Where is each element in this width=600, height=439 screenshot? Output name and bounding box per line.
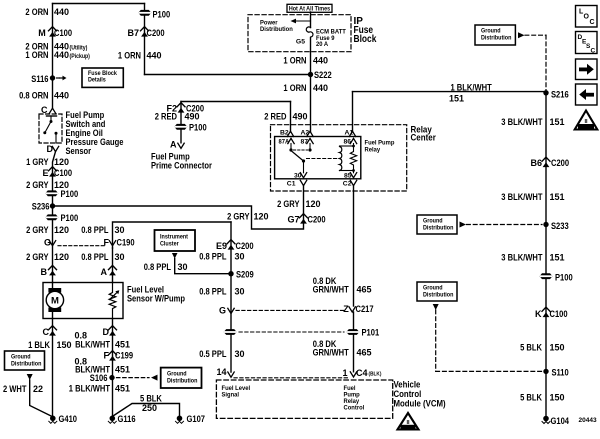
splice S116	[50, 75, 55, 80]
svg-text:(Pickup): (Pickup)	[70, 54, 90, 60]
svg-text:C200: C200	[308, 215, 326, 225]
svg-text:2 WHT: 2 WHT	[3, 384, 27, 394]
svg-text:D: D	[47, 144, 54, 154]
wire: 0.8 PPL horizontal from F C190 branch	[113, 222, 232, 248]
fuse ECM BATT Fuse 9 20A	[306, 27, 313, 37]
svg-text:1 ORN: 1 ORN	[283, 56, 306, 66]
svg-text:Ground: Ground	[423, 218, 443, 225]
svg-text:C: C	[43, 327, 50, 337]
svg-text:C1: C1	[287, 181, 296, 188]
grommet P100 (right)	[540, 273, 553, 279]
relay resistor	[350, 146, 356, 171]
svg-text:GRN/WHT: GRN/WHT	[313, 285, 350, 295]
switch blade	[45, 122, 51, 133]
svg-text:Fuel Pump: Fuel Pump	[365, 140, 395, 147]
svg-text:30: 30	[235, 287, 245, 297]
svg-text:M: M	[51, 296, 59, 307]
svg-text:GRN/WHT: GRN/WHT	[313, 348, 350, 358]
connector C200 pin G7	[300, 214, 308, 224]
svg-text:S209: S209	[236, 270, 254, 280]
svg-text:465: 465	[357, 348, 372, 358]
svg-text:Center: Center	[411, 133, 437, 144]
arrow right of top GD box	[518, 32, 525, 38]
svg-text:Ground: Ground	[423, 285, 443, 292]
connector C100 pin E	[49, 167, 57, 177]
svg-text:30: 30	[235, 349, 245, 359]
svg-text:0.5 PPL: 0.5 PPL	[199, 349, 227, 359]
grommet P100 (top)	[138, 10, 151, 16]
svg-text:151: 151	[550, 192, 565, 202]
svg-text:S116: S116	[31, 74, 48, 84]
svg-text:440: 440	[54, 50, 69, 60]
connector C200 pin B7	[141, 27, 149, 37]
svg-text:C4: C4	[356, 368, 368, 378]
connector C200 pin F2	[177, 103, 185, 113]
wire: A1 branch vertical	[352, 92, 354, 132]
svg-text:P100: P100	[153, 10, 171, 20]
svg-text:451: 451	[115, 384, 130, 394]
svg-text:3 BLK/WHT: 3 BLK/WHT	[501, 117, 543, 127]
svg-text:2 RED: 2 RED	[264, 112, 287, 122]
splice S222	[308, 72, 313, 77]
svg-text:3 BLK/WHT: 3 BLK/WHT	[501, 192, 543, 202]
switch contact plate	[47, 115, 57, 117]
wire: B2 branch vertical 2 RED 490	[290, 102, 292, 132]
svg-text:0.8 PPL: 0.8 PPL	[81, 252, 109, 262]
splice S209	[228, 271, 233, 276]
svg-text:E: E	[42, 168, 48, 178]
svg-text:P101: P101	[362, 328, 380, 338]
box Hot At All Times	[287, 4, 332, 12]
svg-text:1 BLK/WHT: 1 BLK/WHT	[451, 83, 493, 93]
grommet P100 on F2 branch	[174, 124, 187, 130]
arrow below bottom GD box	[433, 304, 439, 310]
svg-text:440: 440	[313, 83, 328, 93]
svg-text:2 RED: 2 RED	[155, 112, 178, 122]
instrument cluster output arrow	[172, 253, 178, 259]
motor M (fuel pump)	[52, 283, 54, 291]
wire: second vertical ORN 440 (P100/B7)	[144, 4, 146, 75]
svg-text:2 GRY: 2 GRY	[26, 252, 48, 262]
dashed box Relay Center	[271, 125, 407, 191]
svg-text:C200: C200	[236, 241, 254, 251]
svg-text:Vehicle: Vehicle	[394, 380, 421, 390]
svg-text:Control: Control	[394, 389, 422, 399]
box Fuel Level Sensor W/Pump	[43, 283, 123, 319]
svg-text:Distribution: Distribution	[260, 26, 293, 33]
wire: sensor D down to G116	[112, 319, 114, 417]
svg-text:451: 451	[115, 340, 130, 350]
svg-text:Instrument: Instrument	[160, 234, 189, 241]
svg-text:S233: S233	[551, 221, 569, 231]
svg-text:14: 14	[216, 367, 226, 377]
svg-text:2 GRY: 2 GRY	[26, 225, 48, 235]
svg-text:5 BLK: 5 BLK	[140, 394, 162, 404]
svg-text:0.8 PPL: 0.8 PPL	[199, 287, 227, 297]
box Fuse Block Details	[82, 68, 123, 87]
svg-text:1 ORN: 1 ORN	[283, 83, 306, 93]
svg-text:G7: G7	[287, 215, 299, 225]
svg-text:30: 30	[178, 262, 188, 272]
box Ground Distribution (S106)	[161, 368, 202, 388]
svg-text:Sensor W/Pump: Sensor W/Pump	[127, 294, 185, 304]
svg-text:G5: G5	[296, 39, 305, 46]
splice S236	[50, 203, 55, 208]
wire: C2 down (0.8 DK GRN/WHT 465)	[353, 186, 355, 306]
wire: top horizontal ORN 440	[53, 3, 145, 5]
wire: below Z to pin 1	[353, 312, 355, 372]
svg-text:87A: 87A	[279, 139, 290, 146]
svg-text:2 ORN: 2 ORN	[25, 7, 48, 17]
OBD II triangle (top right)	[575, 111, 598, 130]
dashed leader to S110	[435, 310, 437, 371]
box Ground Distribution (left)	[5, 351, 45, 370]
connector C200 pin E9	[227, 240, 235, 250]
icon box DESC	[576, 32, 598, 54]
svg-text:20443: 20443	[579, 417, 597, 424]
ground G107	[176, 416, 184, 424]
connector C190 tie line	[58, 245, 106, 247]
box Ground Distribution (top right)	[475, 25, 515, 45]
wire: horizontal 2 RED 490 to F2	[181, 101, 291, 103]
svg-text:Module (VCM): Module (VCM)	[394, 399, 446, 409]
svg-text:C200: C200	[551, 158, 569, 168]
ground G104	[542, 416, 550, 424]
svg-text:F: F	[104, 351, 110, 361]
svg-text:465: 465	[357, 285, 372, 295]
svg-text:C217: C217	[356, 304, 374, 314]
svg-text:440: 440	[147, 51, 162, 61]
connector C217 tie dashes	[236, 309, 346, 311]
svg-text:1 BLK: 1 BLK	[28, 340, 50, 350]
relay blade and common 30	[292, 151, 304, 161]
terminal A into sensor	[109, 265, 117, 275]
svg-text:0.8 PPL: 0.8 PPL	[199, 252, 227, 262]
arrow to power distribution	[294, 20, 311, 22]
svg-text:150: 150	[550, 343, 565, 353]
svg-text:K: K	[535, 309, 542, 319]
svg-text:S106: S106	[90, 373, 108, 383]
svg-text:Block: Block	[354, 34, 377, 45]
svg-text:OBD II: OBD II	[581, 125, 590, 129]
OBD II triangle (VCM)	[398, 413, 419, 430]
svg-text:C100: C100	[54, 168, 72, 178]
svg-text:151: 151	[550, 117, 565, 127]
svg-text:C100: C100	[54, 28, 72, 38]
svg-text:5 BLK: 5 BLK	[520, 343, 542, 353]
svg-text:C: C	[590, 19, 595, 26]
svg-text:150: 150	[57, 340, 72, 350]
svg-text:120: 120	[306, 199, 321, 209]
svg-text:250: 250	[142, 403, 157, 413]
svg-text:F: F	[104, 238, 110, 248]
grommet P100 (upper left)	[45, 190, 58, 196]
svg-text:2 GRY: 2 GRY	[227, 212, 249, 222]
grommet P100 (lower left)	[45, 214, 58, 220]
dashed box Vehicle Control Module	[216, 380, 392, 418]
svg-text:Distribution: Distribution	[423, 292, 454, 299]
svg-text:OBD II: OBD II	[403, 425, 412, 429]
svg-text:C199: C199	[115, 351, 133, 361]
svg-text:30: 30	[115, 252, 125, 262]
connector tie dashes at VCM pins	[234, 377, 350, 379]
wire: left vertical 1 GRY / 2 GRY run	[53, 152, 56, 283]
svg-text:Ground: Ground	[11, 354, 31, 361]
svg-text:120: 120	[54, 225, 69, 235]
svg-text:0.8 PPL: 0.8 PPL	[81, 225, 109, 235]
svg-text:P100: P100	[61, 213, 79, 223]
arrow right of mid GD box	[460, 222, 467, 228]
svg-text:0.8 PPL: 0.8 PPL	[144, 262, 172, 272]
svg-text:C190: C190	[117, 238, 135, 248]
svg-text:22: 22	[33, 384, 43, 394]
svg-text:C100: C100	[550, 309, 568, 319]
fuel level rheostat	[109, 283, 116, 319]
svg-text:Cluster: Cluster	[160, 241, 179, 248]
svg-text:Distribution: Distribution	[423, 225, 454, 232]
grommet P101	[346, 329, 359, 335]
connector C200 pin B6	[542, 157, 550, 167]
svg-text:P100: P100	[555, 273, 573, 283]
connector C100 pin M	[49, 27, 57, 37]
svg-text:G104: G104	[551, 416, 570, 426]
svg-text:Details: Details	[88, 77, 106, 84]
svg-text:120: 120	[54, 157, 69, 167]
wire: sensor C down to G410	[52, 319, 54, 417]
dashed leader S116 to Fuse Block Details	[57, 77, 60, 79]
svg-text:G116: G116	[118, 414, 136, 424]
svg-text:Sensor: Sensor	[66, 146, 92, 156]
svg-text:Signal: Signal	[222, 392, 240, 399]
splice S233	[543, 222, 548, 227]
svg-text:(BLK): (BLK)	[369, 372, 382, 378]
svg-text:S110: S110	[552, 368, 569, 378]
svg-text:Z: Z	[343, 304, 349, 314]
box Ground Distribution (mid right)	[417, 215, 457, 234]
wire: cluster tap to S209	[175, 259, 231, 274]
svg-text:B7: B7	[127, 28, 139, 38]
svg-text:120: 120	[54, 252, 69, 262]
svg-text:S222: S222	[314, 70, 332, 80]
svg-text:Distribution: Distribution	[167, 378, 198, 385]
relay contact tie dashes	[294, 149, 308, 151]
svg-text:B6: B6	[530, 158, 542, 168]
wire: E9 vertical 0.8 PPL	[230, 222, 232, 372]
splice S106	[109, 375, 114, 380]
relay actuation dashes	[307, 158, 337, 160]
wire from hot box to fuse	[310, 12, 312, 28]
svg-text:A: A	[101, 267, 108, 277]
terminal D below sensor	[109, 326, 117, 336]
icon box left arrow	[576, 84, 598, 105]
terminal B into sensor	[49, 265, 57, 275]
svg-text:S216: S216	[551, 90, 569, 100]
svg-text:490: 490	[293, 112, 308, 122]
splice S110	[543, 369, 548, 374]
svg-text:86: 86	[344, 139, 352, 146]
svg-text:440: 440	[313, 56, 328, 66]
connector C199 pin F	[109, 351, 117, 361]
svg-text:Distribution: Distribution	[11, 361, 42, 368]
svg-text:E9: E9	[216, 241, 227, 251]
grommet on signal wire	[224, 329, 237, 335]
relay coil	[340, 147, 342, 171]
svg-text:G107: G107	[187, 414, 206, 424]
terminal C below sensor	[49, 326, 57, 336]
dashed leader S106 to Ground Distribution	[117, 377, 150, 379]
wire: horizontal to S222	[145, 74, 311, 76]
box Instrument Cluster	[155, 230, 196, 251]
svg-text:P100: P100	[61, 189, 79, 199]
svg-text:Relay: Relay	[365, 147, 381, 154]
svg-text:Ground: Ground	[167, 371, 187, 378]
svg-text:B: B	[41, 267, 48, 277]
svg-text:Prime Connector: Prime Connector	[151, 161, 212, 171]
svg-text:2 GRY: 2 GRY	[26, 180, 48, 190]
box Ground Distribution (bottom right)	[417, 282, 457, 301]
icon box right arrow	[576, 59, 598, 80]
svg-text:151: 151	[550, 253, 565, 263]
svg-text:0.8 ORN: 0.8 ORN	[19, 91, 48, 101]
svg-text:150: 150	[550, 393, 565, 403]
icon box LOC	[576, 6, 598, 28]
svg-text:5 BLK: 5 BLK	[520, 393, 542, 403]
svg-text:440: 440	[54, 91, 69, 101]
relay box Fuel Pump Relay	[275, 137, 361, 179]
ground G410	[49, 416, 57, 424]
wire: right main ground vertical	[545, 92, 547, 416]
svg-text:1: 1	[342, 368, 347, 378]
grommet tie dashes P101	[239, 331, 344, 333]
wire: C190 F down to sensor A	[112, 248, 114, 283]
svg-text:D: D	[103, 327, 110, 337]
dashed leader to S216	[525, 34, 546, 36]
svg-text:Ground: Ground	[481, 28, 501, 35]
svg-text:2 GRY: 2 GRY	[277, 199, 299, 209]
splice S216	[543, 90, 548, 95]
svg-text:3 BLK/WHT: 3 BLK/WHT	[501, 253, 543, 263]
fuel pump switch dashed box	[39, 114, 62, 143]
svg-text:1 BLK/WHT: 1 BLK/WHT	[69, 384, 111, 394]
svg-text:Hot At All Times: Hot At All Times	[289, 5, 331, 12]
svg-text:C: C	[591, 48, 596, 55]
wire: left main vertical (2 ORN 440) upper run	[52, 4, 54, 109]
svg-text:1 ORN: 1 ORN	[25, 50, 48, 60]
wire: horizontal 1 BLK/WHT 151 to S216	[353, 91, 547, 93]
dashed leader to S233	[467, 224, 543, 226]
svg-text:C200: C200	[147, 28, 165, 38]
svg-text:Distribution: Distribution	[481, 35, 512, 42]
svg-text:30: 30	[235, 252, 245, 262]
switch pivot dot	[50, 120, 53, 123]
svg-text:120: 120	[254, 212, 269, 222]
svg-text:1 GRY: 1 GRY	[26, 157, 48, 167]
svg-text:S236: S236	[32, 202, 50, 212]
wire: F2 branch vertical	[180, 102, 182, 143]
svg-text:P100: P100	[189, 123, 207, 133]
svg-text:30: 30	[115, 225, 125, 235]
connector C100 pin K	[542, 307, 550, 317]
ground G116	[108, 416, 116, 424]
dashed box IP Fuse Block	[248, 15, 351, 52]
wire: C1 down through G7 C200 and jog to S236	[53, 186, 304, 229]
arrow below left GD box	[27, 374, 33, 380]
svg-text:490: 490	[185, 112, 200, 122]
svg-text:G: G	[219, 306, 226, 316]
svg-text:440: 440	[54, 7, 69, 17]
wire: 5 BLK 250 G116 to G107	[113, 404, 180, 417]
svg-text:1 ORN: 1 ORN	[118, 51, 141, 61]
svg-text:G410: G410	[59, 414, 78, 424]
svg-text:(Utility): (Utility)	[70, 46, 88, 52]
wire: 2 WHT 22 to G410	[30, 380, 52, 417]
wire: fuse down to relay A2	[310, 38, 312, 132]
svg-text:451: 451	[115, 365, 130, 375]
svg-text:BLK/WHT: BLK/WHT	[75, 340, 110, 350]
svg-text:151: 151	[449, 94, 464, 104]
switch contact to D	[55, 132, 58, 135]
svg-text:Control: Control	[344, 405, 365, 412]
svg-text:M: M	[38, 28, 46, 38]
svg-text:A: A	[170, 140, 177, 150]
svg-text:20 A: 20 A	[316, 41, 328, 48]
